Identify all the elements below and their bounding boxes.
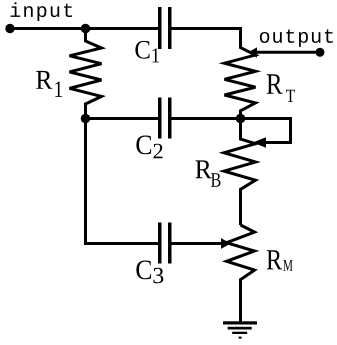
wire C1 right plate to RT top [170, 27, 241, 30]
capacitor C1 [158, 7, 172, 49]
wire left rail: node B down to C3 row [86, 119, 161, 244]
label C2 [136, 136, 162, 159]
RM wiper arrow [221, 238, 231, 249]
potentiometer RB body [224, 119, 256, 226]
label output [260, 29, 333, 46]
RB wiper arrow [253, 137, 266, 148]
wire output [256, 51, 320, 54]
potentiometer RM body [227, 225, 255, 324]
node A: junction input/R1 [81, 24, 91, 34]
label C1 [135, 41, 159, 63]
wire input to C1 left plate [10, 27, 160, 30]
label C3 [136, 261, 163, 284]
node input terminal [5, 24, 14, 33]
label RT [267, 74, 295, 102]
capacitor C2 [158, 98, 172, 139]
node output terminal [316, 48, 325, 57]
label RB [195, 160, 220, 186]
ground [223, 321, 257, 338]
RT wiper arrow [248, 47, 257, 57]
node B: junction R1/C2 [81, 114, 91, 124]
wire C3 right plate to RM wiper [170, 242, 222, 245]
wire feedback loop node C to RB wiper [241, 119, 291, 143]
capacitor C3 [158, 223, 172, 264]
node C: junction RT/RB/C2 [236, 114, 246, 124]
wire node B to C2 left plate [86, 117, 161, 120]
wire C2 right plate to node C [170, 117, 241, 120]
label input [11, 2, 73, 21]
potentiometer RT body [225, 27, 256, 119]
label RM [267, 250, 293, 270]
label R1 [36, 71, 62, 97]
resistor R1 [70, 29, 102, 119]
